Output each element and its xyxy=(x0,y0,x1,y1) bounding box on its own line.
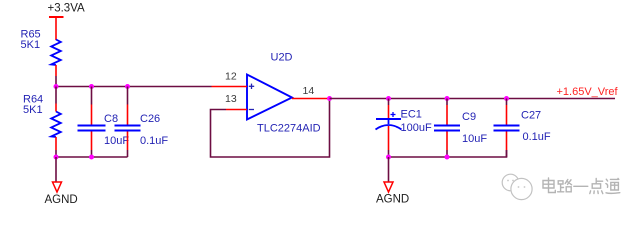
svg-text:AGND: AGND xyxy=(376,194,409,206)
svg-text:+1.65V_Vref: +1.65V_Vref xyxy=(557,86,619,98)
junction node C26 top xyxy=(125,84,130,89)
svg-text:TLC2274AID: TLC2274AID xyxy=(257,123,321,135)
junction node output xyxy=(327,96,332,101)
wire R65 to node A xyxy=(55,76,57,87)
svg-text:100uF: 100uF xyxy=(401,122,432,134)
pin 13 xyxy=(226,109,247,111)
wire to left AGND xyxy=(55,157,57,182)
junction node C9 bottom xyxy=(445,155,450,160)
resistor R64 xyxy=(51,87,61,158)
svg-text:0.1uF: 0.1uF xyxy=(523,131,551,143)
wire output bus y=98.5 xyxy=(330,98,616,100)
svg-text:5K1: 5K1 xyxy=(21,39,41,51)
svg-text:10uF: 10uF xyxy=(104,135,129,147)
watermark text (stylized strokes) xyxy=(543,178,620,194)
junction node EC1 top xyxy=(386,96,391,101)
power +3.3VA bar xyxy=(49,17,64,40)
svg-text:AGND: AGND xyxy=(45,194,78,206)
svg-text:13: 13 xyxy=(225,93,237,105)
svg-text:12: 12 xyxy=(225,71,237,83)
junction node A xyxy=(54,84,59,89)
capacitor C26 xyxy=(115,87,141,158)
junction node C27 top xyxy=(504,96,509,101)
svg-text:+3.3VA: +3.3VA xyxy=(48,3,86,15)
svg-text:C8: C8 xyxy=(104,113,118,125)
svg-text:C9: C9 xyxy=(462,111,476,123)
op-amp U2D xyxy=(247,75,292,120)
svg-text:14: 14 xyxy=(303,85,315,97)
capacitor C8 xyxy=(78,87,106,158)
ground AGND left xyxy=(53,182,62,192)
junction node C9 top xyxy=(445,96,450,101)
wire bottom-right bus y=157 xyxy=(389,150,507,157)
svg-text:U2D: U2D xyxy=(271,52,293,64)
svg-text:C26: C26 xyxy=(140,113,160,125)
svg-text:10uF: 10uF xyxy=(462,133,487,145)
pin 14 xyxy=(292,98,330,100)
junction node EC1 bottom xyxy=(386,155,391,160)
svg-text:C27: C27 xyxy=(521,110,541,122)
capacitor EC1 polarized xyxy=(376,99,402,158)
ground AGND right xyxy=(384,182,393,192)
svg-text:0.1uF: 0.1uF xyxy=(140,135,168,147)
wire to right AGND xyxy=(388,157,390,182)
junction node C8 top xyxy=(89,84,94,89)
svg-text:EC1: EC1 xyxy=(401,109,422,121)
wire feedback loop xyxy=(211,99,330,158)
capacitor C9 xyxy=(434,99,460,158)
watermark icon xyxy=(502,174,532,199)
pin 12 xyxy=(212,86,248,88)
wire top-left bus y=86.5 xyxy=(56,86,212,88)
wire bottom-left bus y=157 xyxy=(56,156,128,158)
svg-text:5K1: 5K1 xyxy=(23,104,43,116)
junction node R64 bottom xyxy=(54,155,59,160)
capacitor C27 xyxy=(494,99,520,158)
resistor R65 xyxy=(51,40,61,77)
junction node C8 bottom xyxy=(89,155,94,160)
